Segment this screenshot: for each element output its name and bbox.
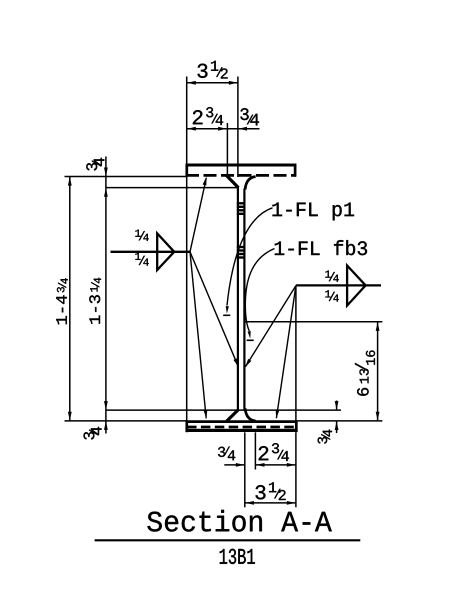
dim line 3/4 and 2 3/4 bottom [224, 464, 296, 466]
dim line 1-4 3/4 (overall) [69, 177, 71, 421]
dim line 2 3/4 and 3/4 top [187, 128, 260, 130]
dim text 3/4 top small [240, 108, 248, 120]
label text 1-FL p1 [272, 203, 354, 221]
label text 1-FL fb3 [275, 240, 367, 255]
weld size 1/4 left above [135, 230, 140, 237]
web of beam 13B1 [238, 187, 245, 412]
weld fillet bottom-left [227, 410, 239, 422]
dim text 3 1/2 bottom row [256, 485, 266, 499]
extension lines for top dims [187, 77, 238, 422]
weld size 1/4 right above [325, 270, 330, 277]
leader: left weld to web left face [190, 252, 238, 367]
dim line 3 1/2 bottom [245, 502, 296, 504]
dim text 1-3 1/4 left inner (rotated) [89, 278, 101, 324]
dim text 3/4 bottom row [218, 447, 225, 457]
web weld hatch group (upper) [237, 203, 246, 214]
leader: right weld to bottom plate [276, 286, 296, 419]
weld symbol right: reference line and flag [296, 266, 381, 306]
weld fillet top-left [226, 175, 238, 187]
title underline [95, 539, 361, 541]
leader: right weld to web right face [245, 286, 296, 367]
label leader 1-FL p1 (curved, ends with tick) [227, 208, 273, 306]
dim 3/4 right (bottom flange thickness) [336, 401, 338, 434]
dim text 3/4 top-left (rotated) [86, 158, 104, 171]
extension line + dim 6 13/16 right [245, 321, 383, 323]
weld fillet top-right [245, 177, 256, 190]
member mark 13B1 [220, 549, 255, 564]
dim text 2 3/4 bottom row [259, 446, 269, 460]
flange plate fb3 (bottom plate) [186, 420, 298, 432]
dim text 3 1/2 top [198, 64, 208, 78]
dim line 3/4-3/4 left column [105, 157, 107, 434]
extension lines for left dims [65, 177, 383, 421]
dim line 3 1/2 top [187, 82, 238, 84]
dim text 3/4 right (rotated) [318, 430, 332, 444]
web weld hatch group (lower) [237, 247, 246, 258]
weld symbol left: reference line and flag [111, 233, 191, 270]
leader: left weld to bottom plate [190, 252, 206, 419]
flange plate FL p1 (top plate) [186, 164, 297, 177]
leader: left weld to top plate [190, 178, 206, 252]
dim text 6 13/16 right (rotated) [355, 350, 375, 395]
weld fillet bottom-right [245, 408, 256, 421]
dim text 2 3/4 top [193, 110, 203, 124]
dim text 3/4 bottom-left (rotated) [83, 427, 101, 440]
title: Section A-A [147, 510, 331, 532]
label leader 1-FL fb3 (curved, ends with tick) [245, 249, 274, 332]
dim text 1-4 3/4 left outer (rotated) [56, 278, 68, 324]
weld size 1/4 left below [135, 253, 140, 260]
extension lines bottom dims [245, 285, 296, 507]
weld size 1/4 right below [325, 290, 330, 297]
